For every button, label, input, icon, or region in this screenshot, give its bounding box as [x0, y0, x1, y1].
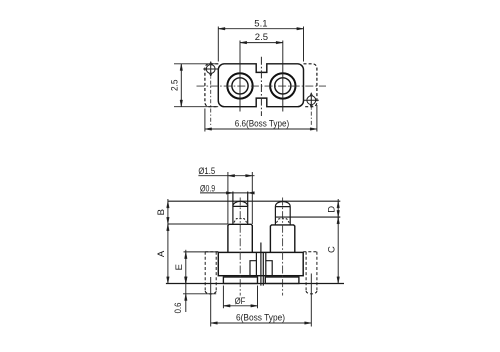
level line: pin tip top — [168, 200, 340, 202]
dimension 0.6 — [185, 277, 188, 313]
top view: left pin outer circle — [227, 73, 252, 98]
dimension 2.5 (body height, left) — [174, 64, 218, 107]
top view: left flange (boss type) dashed outline — [205, 64, 218, 107]
side view: center slot outer lines — [256, 252, 265, 275]
side view: right pin tip dome — [275, 201, 290, 206]
side view: left pin centerline — [239, 198, 241, 296]
dimension phi 1.5 — [198, 172, 254, 224]
side view: left boss hidden outline — [205, 252, 216, 291]
side view: left pin crimp (hidden) — [234, 219, 247, 223]
side view: right pin plunger sides — [275, 206, 290, 225]
svg-text:Ø0.9: Ø0.9 — [200, 183, 215, 193]
side view: left pin barrel — [228, 224, 252, 252]
top view: connector body outline with center notches — [218, 64, 303, 107]
level line: barrel top (left) — [168, 223, 228, 225]
dimension B — [167, 199, 170, 226]
svg-text:D: D — [326, 206, 337, 213]
dimension 5.1 — [218, 27, 303, 62]
top view: right pin outer circle — [270, 73, 295, 98]
side view: right step — [266, 261, 272, 276]
top view: left pin inner circle — [232, 78, 248, 94]
dimension phi 0.9 — [200, 192, 254, 195]
dimension D — [337, 199, 340, 219]
dimension 6.6 (Boss Type) — [205, 105, 317, 132]
dimension A — [167, 224, 170, 284]
svg-text:6.6(Boss Type): 6.6(Boss Type) — [235, 119, 290, 129]
top view: left boss centerline — [210, 62, 212, 125]
level line: seating plane — [166, 283, 344, 285]
dimension 6 (Boss Type) — [211, 274, 312, 327]
svg-text:E: E — [174, 264, 185, 270]
top view: left boss target circle — [203, 62, 218, 77]
top view: vertical centerline — [260, 57, 262, 116]
svg-text:A: A — [156, 250, 167, 257]
svg-text:C: C — [326, 246, 337, 253]
side view: left pin tip dome — [233, 201, 248, 206]
svg-text:0.6: 0.6 — [173, 303, 183, 314]
side view: center wall lines — [261, 243, 263, 286]
side view: right pin centerline — [282, 198, 284, 296]
side view: left step — [250, 261, 256, 276]
top view: right boss centerline — [310, 93, 312, 125]
dimension phi F — [223, 286, 257, 309]
top view: left pin vertical extension line — [239, 41, 241, 112]
level line: right pin mid — [275, 216, 340, 218]
side view: right boss hidden outline — [306, 252, 317, 291]
svg-text:2.5: 2.5 — [169, 80, 179, 92]
svg-text:2.5: 2.5 — [255, 32, 268, 43]
level line: boss bottom — [183, 293, 216, 295]
dimension C — [337, 217, 340, 283]
side view: right solder pad — [265, 277, 299, 284]
dimension E — [184, 250, 219, 284]
side view: right pin crimp (hidden) — [276, 219, 289, 223]
svg-text:ØF: ØF — [235, 296, 246, 306]
svg-text:5.1: 5.1 — [254, 18, 267, 29]
top view: right boss target circle — [304, 93, 319, 108]
svg-text:B: B — [156, 209, 167, 215]
side view: housing body — [218, 252, 303, 275]
top view: horizontal centerline — [197, 85, 327, 87]
top view: right pin vertical extension line — [282, 41, 284, 112]
svg-text:Ø1.5: Ø1.5 — [198, 166, 215, 176]
top view: right pin inner circle — [275, 78, 291, 94]
dimension 2.5 (pin pitch) — [240, 41, 283, 44]
top view: right flange (boss type) dashed outline — [304, 64, 317, 107]
side view: left solder pad — [223, 277, 257, 284]
side view: left pin plunger sides — [233, 192, 248, 225]
svg-text:6(Boss Type): 6(Boss Type) — [236, 312, 285, 322]
side view: right pin barrel — [270, 225, 294, 253]
